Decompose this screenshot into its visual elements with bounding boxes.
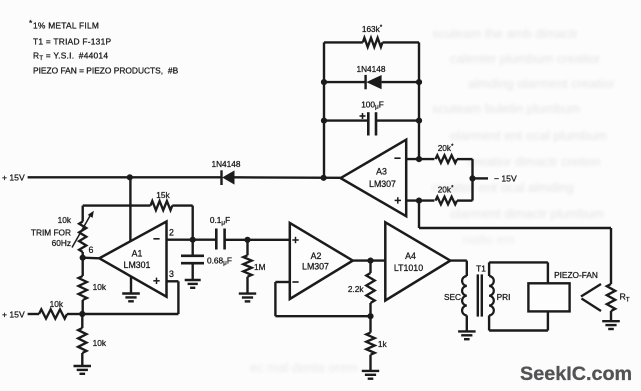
svg-text:1k: 1k (378, 339, 388, 349)
svg-text:3: 3 (169, 269, 174, 279)
svg-text:6: 6 (89, 245, 94, 255)
svg-text:nialto em: nialto em (462, 232, 515, 247)
svg-text:PRI: PRI (497, 292, 511, 302)
svg-text:calenter plumbum creatior: calenter plumbum creatior (450, 51, 601, 66)
svg-text:SEC: SEC (444, 292, 461, 302)
svg-text:*1% METAL FILM: *1% METAL FILM (29, 18, 99, 31)
svg-text:10k: 10k (93, 338, 107, 348)
svg-text:PIEZO FAN = PIEZO PRODUCTS, #B: PIEZO FAN = PIEZO PRODUCTS, #B (33, 65, 179, 75)
svg-text:LM307: LM307 (302, 262, 329, 272)
svg-text:15k: 15k (156, 190, 170, 200)
svg-text:scuteam buletin plumbum: scuteam buletin plumbum (432, 101, 580, 116)
svg-text:PIEZO-FAN: PIEZO-FAN (554, 270, 598, 280)
svg-text:A3: A3 (376, 167, 387, 177)
svg-text:A2: A2 (311, 251, 322, 261)
svg-text:LT1010: LT1010 (394, 263, 423, 273)
svg-text:T1: T1 (476, 263, 486, 273)
svg-text:A1: A1 (132, 249, 143, 259)
svg-text:0.1μF: 0.1μF (210, 215, 230, 226)
svg-text:almding olarment creatior: almding olarment creatior (468, 76, 615, 91)
svg-text:60Hz: 60Hz (52, 238, 71, 248)
svg-text:ec mal denta orem: ec mal denta orem (250, 360, 358, 375)
svg-text:scuteam the amb dimactr: scuteam the amb dimactr (432, 26, 579, 41)
svg-text:163k*: 163k* (362, 24, 383, 34)
svg-text:2.2k: 2.2k (348, 284, 365, 294)
svg-text:10k: 10k (93, 282, 107, 292)
svg-text:100μF: 100μF (361, 99, 384, 110)
svg-text:TRIM FOR: TRIM FOR (31, 228, 71, 238)
svg-text:1N4148: 1N4148 (356, 64, 385, 74)
svg-text:olarment ent ocal plumbum: olarment ent ocal plumbum (450, 128, 607, 143)
svg-text:1M: 1M (254, 262, 266, 272)
svg-text:+ 15V: + 15V (2, 309, 25, 319)
svg-text:+ 15V: + 15V (2, 172, 25, 182)
svg-text:LM307: LM307 (369, 179, 396, 189)
svg-text:T1 = TRIAD F-131P: T1 = TRIAD F-131P (33, 36, 111, 46)
svg-text:10k: 10k (50, 299, 64, 309)
svg-text:2: 2 (169, 228, 174, 238)
svg-text:olarment dimactr plumbum: olarment dimactr plumbum (450, 206, 604, 221)
svg-text:SeekIC.com: SeekIC.com (520, 363, 632, 385)
svg-text:1N4148: 1N4148 (211, 159, 240, 169)
svg-text:0.68μF: 0.68μF (207, 255, 232, 266)
svg-text:creatior dimactr cretion: creatior dimactr cretion (468, 154, 600, 169)
svg-text:RT = Y.S.I.#44014: RT = Y.S.I.#44014 (33, 51, 108, 63)
svg-text:− 15V: − 15V (494, 173, 517, 183)
svg-text:LM301: LM301 (124, 260, 151, 270)
svg-text:A4: A4 (405, 251, 416, 261)
svg-text:10k: 10k (58, 215, 72, 225)
